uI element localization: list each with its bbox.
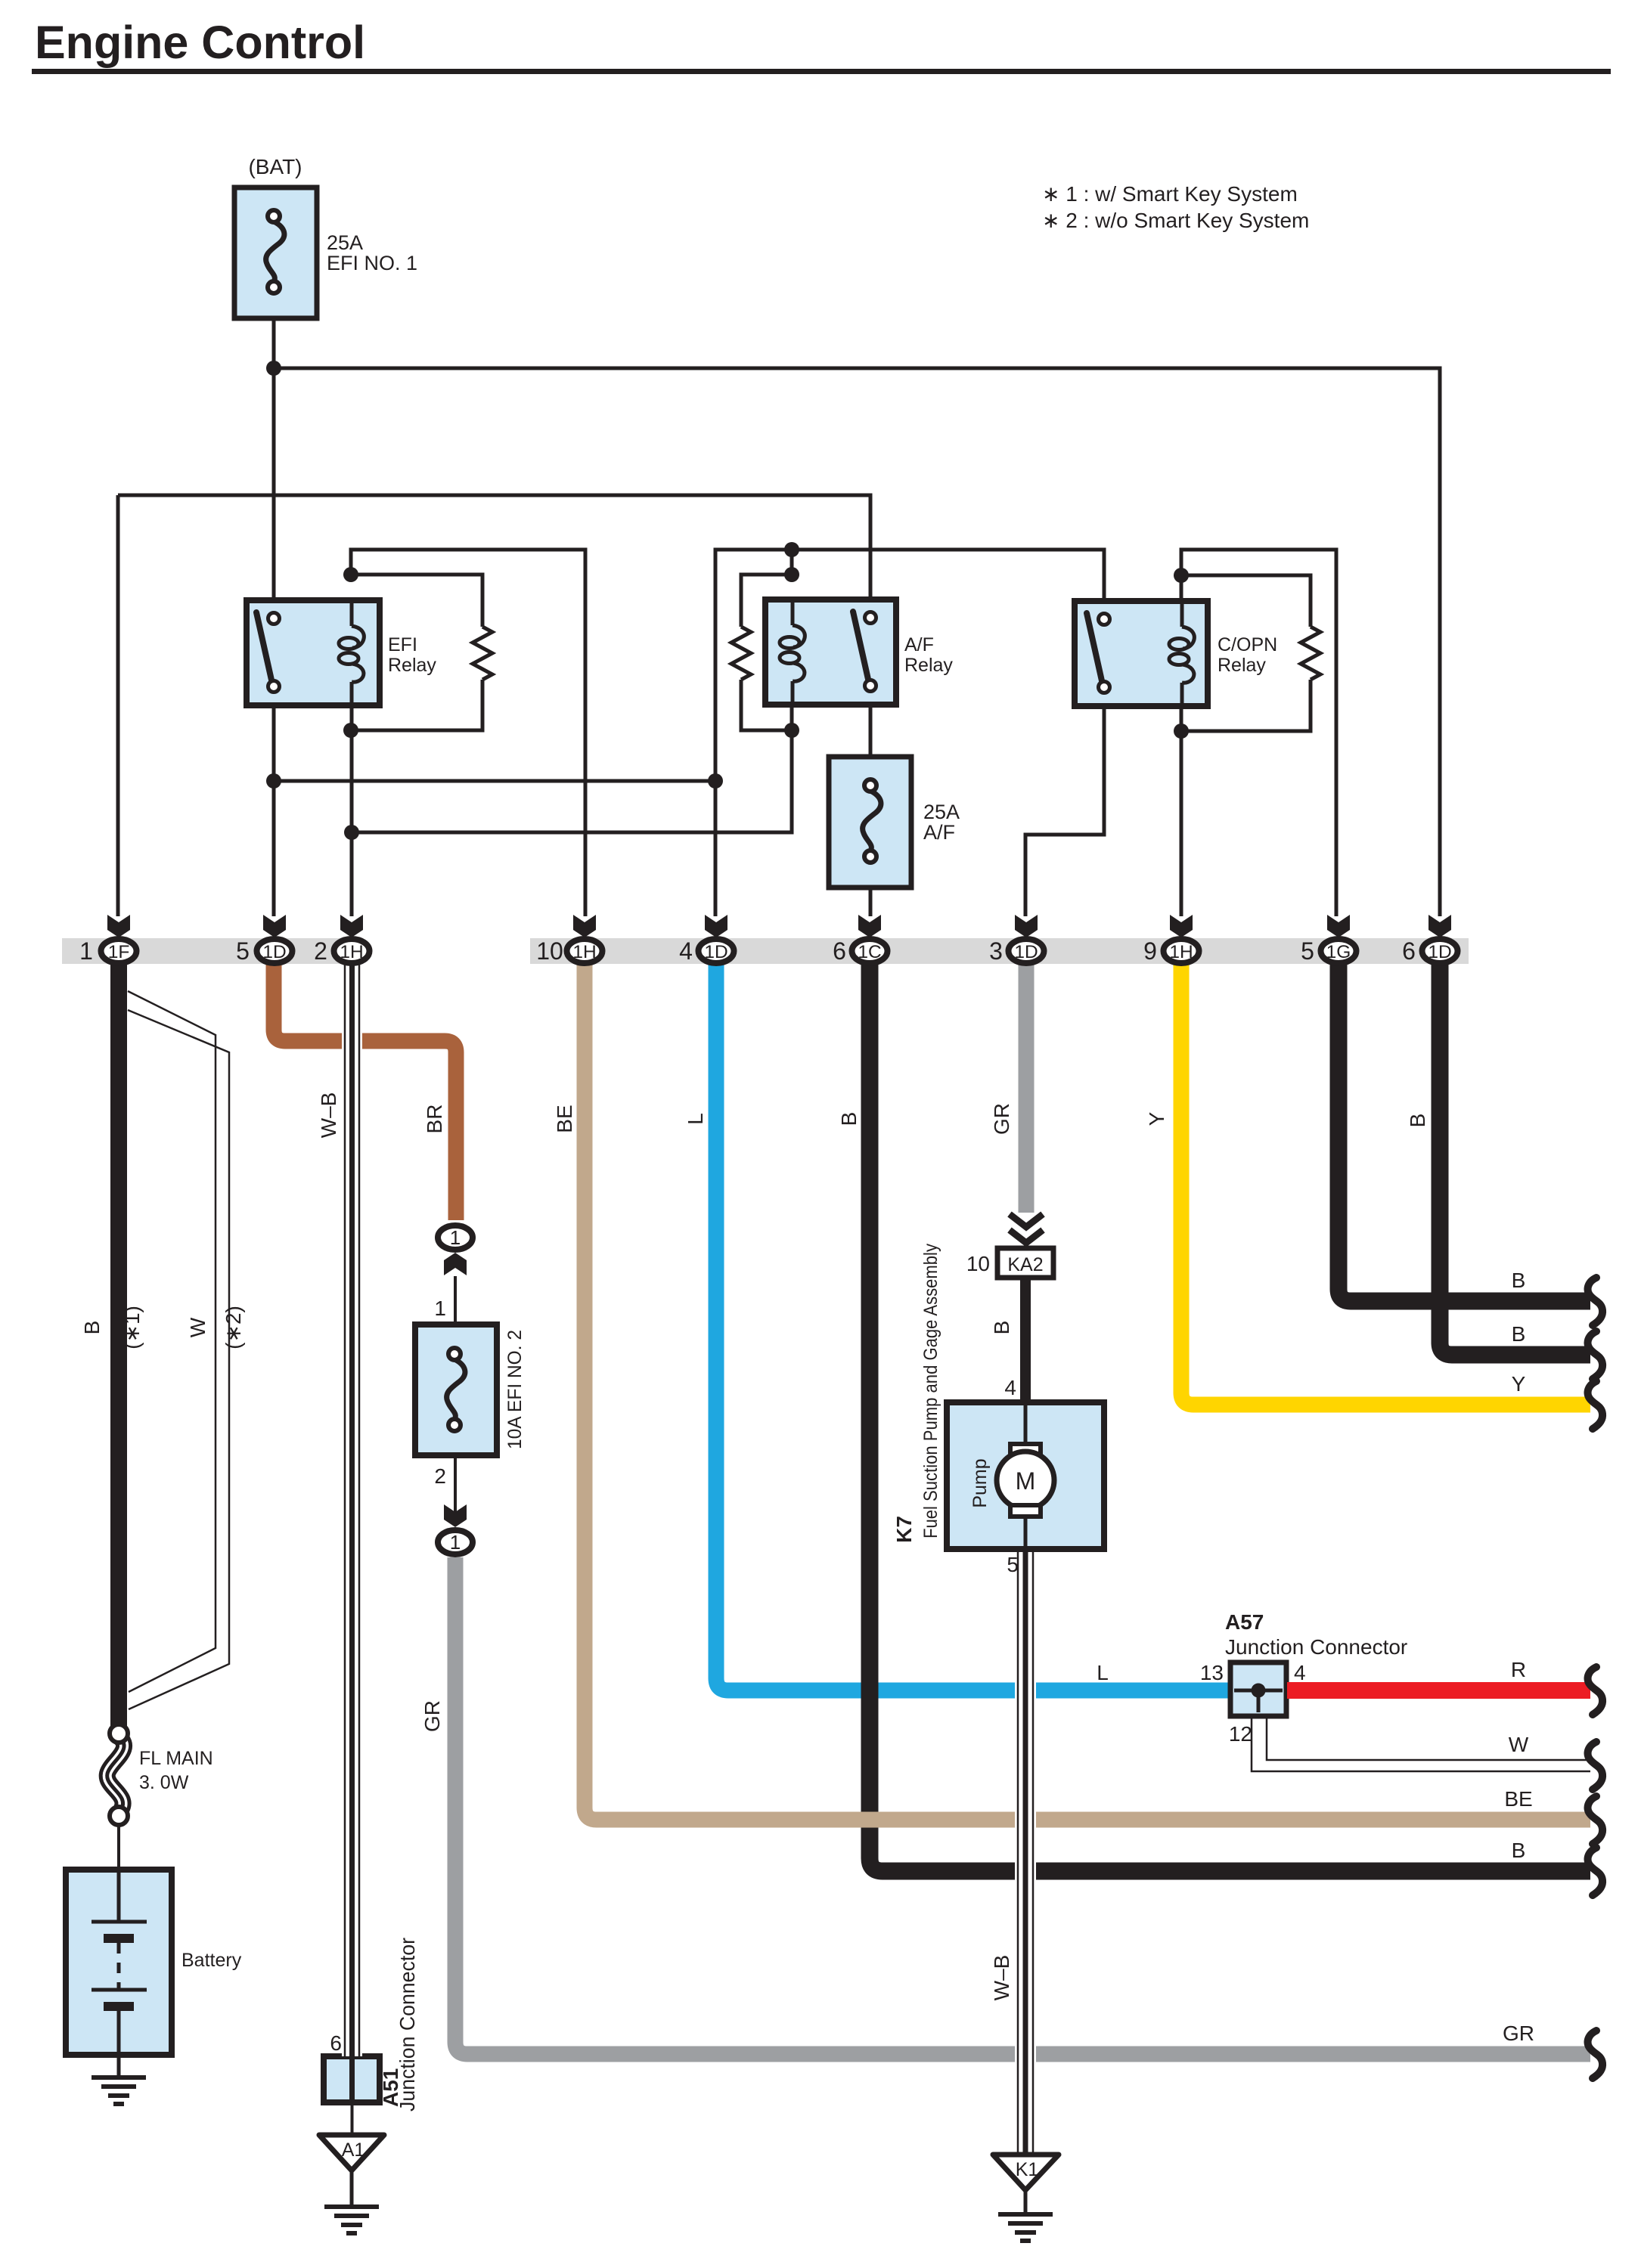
band segment left bbox=[62, 938, 363, 964]
relay resistor bbox=[1301, 627, 1320, 680]
svg-text:BR: BR bbox=[423, 1105, 446, 1134]
pump box bbox=[947, 1402, 1104, 1549]
wire to ground bbox=[117, 2055, 121, 2077]
top circle bbox=[110, 1724, 128, 1743]
wire: A/F coil top tap bbox=[790, 550, 794, 575]
ground A1 bbox=[324, 2207, 379, 2233]
svg-text:W–B: W–B bbox=[317, 1092, 340, 1139]
svg-text:Fuel Suction Pump and Gage Ass: Fuel Suction Pump and Gage Assembly bbox=[920, 1244, 941, 1538]
svg-text:W–B: W–B bbox=[990, 1955, 1013, 2001]
svg-text:GR: GR bbox=[1503, 2022, 1534, 2045]
node: EFI coil bottom bbox=[343, 723, 358, 738]
svg-text:R: R bbox=[1511, 1658, 1526, 1681]
svg-text:B: B bbox=[1512, 1839, 1526, 1862]
wire: C/OPN relay resistor loop bbox=[1181, 575, 1311, 627]
ground K1 bbox=[998, 2214, 1053, 2241]
wire R red from A57 to harness bbox=[1287, 1682, 1590, 1699]
wire BE beige from 10 1H to harness bbox=[585, 965, 1590, 1820]
svg-text:6: 6 bbox=[833, 937, 846, 965]
svg-text:6: 6 bbox=[1402, 937, 1416, 965]
svg-text:1D: 1D bbox=[704, 942, 727, 962]
motor circle M bbox=[997, 1452, 1054, 1509]
svg-text:4: 4 bbox=[1294, 1661, 1306, 1684]
svg-text:9: 9 bbox=[1143, 937, 1157, 965]
svg-text:M: M bbox=[1016, 1467, 1036, 1495]
svg-text:Relay: Relay bbox=[1218, 655, 1266, 676]
W-B side lines bbox=[344, 965, 346, 2056]
svg-text:1G: 1G bbox=[1326, 942, 1351, 962]
connector ring 1 upper bbox=[438, 1225, 473, 1250]
wire to A1 ground triangle bbox=[351, 2102, 354, 2135]
title underline bbox=[32, 69, 1611, 74]
svg-text:Pump: Pump bbox=[969, 1458, 991, 1507]
curl BE bbox=[1588, 1796, 1603, 1844]
connector 2 1H bbox=[314, 915, 369, 965]
wire: C/OPN coil bottom down to 9 1H bbox=[1180, 706, 1183, 916]
svg-text:EFI NO. 1: EFI NO. 1 bbox=[327, 252, 417, 274]
relay switch bbox=[256, 612, 280, 692]
svg-text:∗ 2 : w/o Smart Key System: ∗ 2 : w/o Smart Key System bbox=[1042, 209, 1309, 232]
svg-text:EFI: EFI bbox=[388, 634, 417, 655]
double chevron arrow bbox=[1010, 1214, 1043, 1243]
svg-text:3. 0W: 3. 0W bbox=[139, 1772, 189, 1793]
wire ring to fuse bbox=[454, 1276, 457, 1325]
wire fuse to lower ring bbox=[454, 1455, 457, 1524]
fuse element bbox=[447, 1348, 465, 1431]
svg-text:1F: 1F bbox=[108, 942, 130, 962]
squiggle bbox=[107, 1737, 124, 1810]
node: C/OPN coil top bbox=[1174, 568, 1189, 583]
node: 4 1D riser join bbox=[708, 773, 723, 789]
svg-text:B: B bbox=[1512, 1269, 1526, 1292]
plate short 2 bbox=[104, 2002, 134, 2011]
curl W bbox=[1588, 1742, 1603, 1789]
KA2 box bbox=[997, 1248, 1053, 1278]
svg-text:1D: 1D bbox=[1428, 942, 1451, 962]
connector 5 1G bbox=[1301, 915, 1356, 965]
svg-text:K7: K7 bbox=[892, 1516, 916, 1543]
relay resistor bbox=[473, 627, 492, 680]
bottom circle bbox=[110, 1807, 128, 1825]
wire B black KA2 to pump bbox=[1020, 1278, 1031, 1404]
wire GR gray from junction 1 down and right to harness bbox=[455, 1557, 1590, 2054]
wire: EFI relay resistor loop bbox=[351, 575, 482, 627]
svg-text:2: 2 bbox=[434, 1464, 446, 1488]
A57 internal bars bbox=[1234, 1689, 1283, 1693]
A51 box bbox=[324, 2056, 380, 2102]
connector 1 1F bbox=[79, 915, 136, 965]
svg-text:1: 1 bbox=[434, 1297, 446, 1320]
up arrow into ring bbox=[444, 1253, 467, 1275]
wire: horizontal y655 from 1F to A/F relay switch bbox=[118, 495, 870, 618]
svg-text:6: 6 bbox=[330, 2031, 342, 2055]
svg-text:2: 2 bbox=[314, 937, 327, 965]
connector 3 1D bbox=[989, 915, 1044, 965]
svg-text:B: B bbox=[1406, 1114, 1429, 1128]
plate long 1 bbox=[92, 1920, 147, 1924]
connector 6 1C bbox=[833, 915, 887, 965]
svg-text:A1: A1 bbox=[342, 2139, 365, 2161]
wire to battery bbox=[117, 1825, 120, 1870]
svg-text:5: 5 bbox=[236, 937, 250, 965]
internal wire bottom bbox=[1024, 1512, 1028, 1549]
svg-text:(∗2): (∗2) bbox=[222, 1306, 245, 1349]
internal wire top bbox=[1024, 1402, 1028, 1448]
node: C/OPN coil bottom bbox=[1174, 723, 1189, 739]
svg-text:25A: 25A bbox=[327, 231, 363, 254]
svg-text:K1: K1 bbox=[1016, 2159, 1039, 2180]
svg-text:5: 5 bbox=[1301, 937, 1314, 965]
node: A/F coil feed bbox=[784, 542, 799, 557]
svg-text:B: B bbox=[1512, 1322, 1526, 1346]
svg-text:GR: GR bbox=[990, 1103, 1013, 1135]
wire B black from 1 1F to FL MAIN bbox=[110, 965, 127, 1726]
svg-text:Battery: Battery bbox=[181, 1950, 242, 1971]
wire W alternative (smart key) hollow wire bbox=[128, 991, 229, 1709]
W-B side lines bbox=[1017, 1549, 1019, 2153]
fuse box 25A EFI NO.1 bbox=[234, 187, 317, 318]
wire: EFI coil top to resistor loop and 10 1H bbox=[351, 550, 585, 916]
svg-text:BE: BE bbox=[1504, 1787, 1532, 1811]
svg-text:1H: 1H bbox=[1169, 942, 1193, 962]
wire B black from 5 1G to harness bbox=[1339, 965, 1590, 1301]
svg-text:Relay: Relay bbox=[904, 655, 953, 676]
svg-text:FL MAIN: FL MAIN bbox=[139, 1748, 213, 1769]
svg-text:A57: A57 bbox=[1225, 1610, 1264, 1634]
W-B center stripe bbox=[1023, 1549, 1028, 2153]
svg-text:B: B bbox=[990, 1321, 1013, 1335]
node: A/F coil bottom bbox=[784, 723, 799, 738]
fuse element bbox=[266, 210, 284, 293]
wire: EFI switch output down to 5 1D bbox=[272, 686, 276, 916]
wire: A/F coil bottom return to 2 1H net bbox=[352, 705, 792, 832]
wire to ground bbox=[1024, 2190, 1028, 2214]
svg-text:5: 5 bbox=[1007, 1553, 1019, 1576]
node: EFI coil top bbox=[343, 567, 358, 582]
white halo bbox=[1015, 1549, 1036, 2153]
relay coil bbox=[780, 600, 805, 705]
svg-text:12: 12 bbox=[1229, 1722, 1252, 1746]
commutator bottom bbox=[1010, 1505, 1041, 1517]
wire: BAT fuse to EFI relay switch top bbox=[272, 318, 276, 618]
svg-text:A/F: A/F bbox=[923, 821, 955, 844]
internal wire bottom bbox=[117, 2011, 121, 2055]
battery box bbox=[66, 1870, 172, 2055]
relay coil bbox=[1169, 601, 1194, 706]
fuse box 10A EFI NO.2 bbox=[415, 1325, 497, 1455]
wire: 4 1D riser and y727 run to C/OPN switch bbox=[715, 550, 1104, 916]
connector 6 1D bbox=[1402, 915, 1457, 965]
svg-text:KA2: KA2 bbox=[1007, 1254, 1043, 1275]
curl B 1D bbox=[1588, 1331, 1603, 1379]
dashed link bbox=[117, 1943, 121, 1990]
svg-text:BE: BE bbox=[553, 1105, 576, 1132]
svg-text:A/F: A/F bbox=[904, 634, 934, 655]
connector 5 1D bbox=[236, 915, 292, 965]
ground battery bbox=[92, 2077, 146, 2104]
svg-text:L: L bbox=[1097, 1661, 1109, 1684]
svg-text:1C: 1C bbox=[858, 942, 881, 962]
band segment right bbox=[530, 938, 1469, 964]
svg-text:1: 1 bbox=[450, 1226, 461, 1249]
curl GR bbox=[1588, 2031, 1603, 2078]
relay box C/OPN bbox=[1075, 601, 1208, 706]
relay switch bbox=[853, 612, 876, 692]
svg-text:1H: 1H bbox=[340, 942, 363, 962]
svg-text:1: 1 bbox=[450, 1531, 461, 1554]
svg-text:10: 10 bbox=[966, 1252, 990, 1275]
wire: 1F drop bbox=[116, 495, 120, 916]
plate long 2 bbox=[92, 1988, 147, 1992]
svg-text:B: B bbox=[837, 1112, 861, 1126]
svg-text:GR: GR bbox=[420, 1700, 444, 1732]
node: A/F return join on 2 1H wire bbox=[344, 825, 359, 840]
svg-text:25A: 25A bbox=[923, 801, 960, 823]
relay resistor bbox=[731, 627, 751, 680]
wire: C/OPN switch output jog to 3 1D bbox=[1025, 687, 1104, 916]
svg-text:B: B bbox=[80, 1321, 104, 1335]
svg-text:Y: Y bbox=[1512, 1372, 1526, 1396]
svg-text:1H: 1H bbox=[572, 942, 596, 962]
wire GR gray from 3 1D to KA2 bbox=[1019, 965, 1035, 1213]
connector 4 1D bbox=[679, 915, 734, 965]
connector ring 1 lower bbox=[438, 1530, 473, 1554]
relay box EFI bbox=[247, 600, 380, 705]
wire Y yellow from 9 1H to harness bbox=[1181, 965, 1590, 1405]
wire BR brown from 5 1D to junction 1 bbox=[274, 965, 456, 1220]
svg-text:Junction Connector: Junction Connector bbox=[396, 1938, 419, 2112]
svg-text:1: 1 bbox=[79, 937, 93, 965]
wire W white thin from A57 pin 12 to harness bbox=[1252, 1717, 1590, 1771]
wire: A/F relay resistor loop bbox=[741, 575, 792, 627]
node: EFI switch branch bbox=[266, 773, 281, 789]
relay switch bbox=[1087, 613, 1110, 693]
svg-text:13: 13 bbox=[1200, 1661, 1224, 1684]
svg-text:(∗1): (∗1) bbox=[120, 1306, 144, 1349]
internal wire top bbox=[117, 1870, 121, 1922]
svg-text:1D: 1D bbox=[262, 942, 286, 962]
node: BAT branch bbox=[266, 361, 281, 376]
wire: battery feed horizontal y487 to far right bbox=[274, 368, 1440, 916]
svg-text:Y: Y bbox=[1145, 1111, 1168, 1126]
svg-text:Junction Connector: Junction Connector bbox=[1225, 1635, 1407, 1659]
svg-text:W: W bbox=[186, 1317, 209, 1337]
plate short 1 bbox=[104, 1934, 134, 1943]
commutator top bbox=[1010, 1444, 1041, 1455]
fuse box 25A A/F bbox=[829, 757, 911, 888]
connector 9 1H bbox=[1143, 915, 1199, 965]
wire: EFI coil bottom down to 2 1H bbox=[350, 705, 354, 916]
junction dots bbox=[266, 361, 1189, 840]
triangle A1 bbox=[319, 2135, 384, 2170]
svg-text:Relay: Relay bbox=[388, 655, 436, 676]
curl Y bbox=[1588, 1381, 1603, 1429]
wire to ground bbox=[350, 2170, 354, 2207]
wire: A/F switch to 25A A/F fuse bbox=[869, 686, 873, 757]
svg-text:W: W bbox=[1509, 1733, 1529, 1756]
svg-text:(BAT): (BAT) bbox=[248, 155, 302, 178]
curl B 1C bbox=[1588, 1848, 1603, 1895]
wire B black from 6 1D to harness bbox=[1440, 965, 1590, 1355]
wire: C/OPN coil top to 5 1G bbox=[1181, 550, 1336, 916]
fuse element bbox=[863, 779, 881, 863]
A57 box bbox=[1230, 1662, 1286, 1716]
svg-text:10: 10 bbox=[536, 937, 563, 965]
relay coil bbox=[339, 600, 364, 705]
down arrow into lower ring bbox=[444, 1504, 467, 1527]
svg-text:Engine Control: Engine Control bbox=[35, 17, 365, 68]
svg-text:L: L bbox=[684, 1113, 707, 1125]
svg-text:3: 3 bbox=[989, 937, 1003, 965]
wire L blue from 4 1D to A57 bbox=[716, 965, 1230, 1690]
W-B center stripe bbox=[349, 965, 355, 2102]
wire B black from 6 1C to harness bbox=[870, 965, 1590, 1871]
curl B 1G bbox=[1588, 1278, 1603, 1325]
svg-text:10A EFI NO. 2: 10A EFI NO. 2 bbox=[504, 1330, 526, 1449]
wire: branch y1033 EFI switch to 4 1D net bbox=[274, 779, 715, 783]
relay box A/F bbox=[765, 600, 896, 705]
wire: 25A A/F fuse to 6 1C bbox=[869, 888, 873, 916]
svg-text:4: 4 bbox=[1004, 1376, 1016, 1399]
curl R bbox=[1588, 1667, 1603, 1715]
svg-text:∗ 1 : w/ Smart Key System: ∗ 1 : w/ Smart Key System bbox=[1042, 182, 1298, 206]
white halo bbox=[342, 965, 362, 2056]
svg-text:1D: 1D bbox=[1014, 942, 1038, 962]
svg-text:4: 4 bbox=[679, 937, 693, 965]
svg-text:C/OPN: C/OPN bbox=[1218, 634, 1277, 655]
connector 10 1H bbox=[536, 915, 602, 965]
A57 junction dot bbox=[1252, 1684, 1266, 1698]
triangle K1 bbox=[993, 2155, 1059, 2190]
node: A/F coil top bbox=[784, 567, 799, 582]
